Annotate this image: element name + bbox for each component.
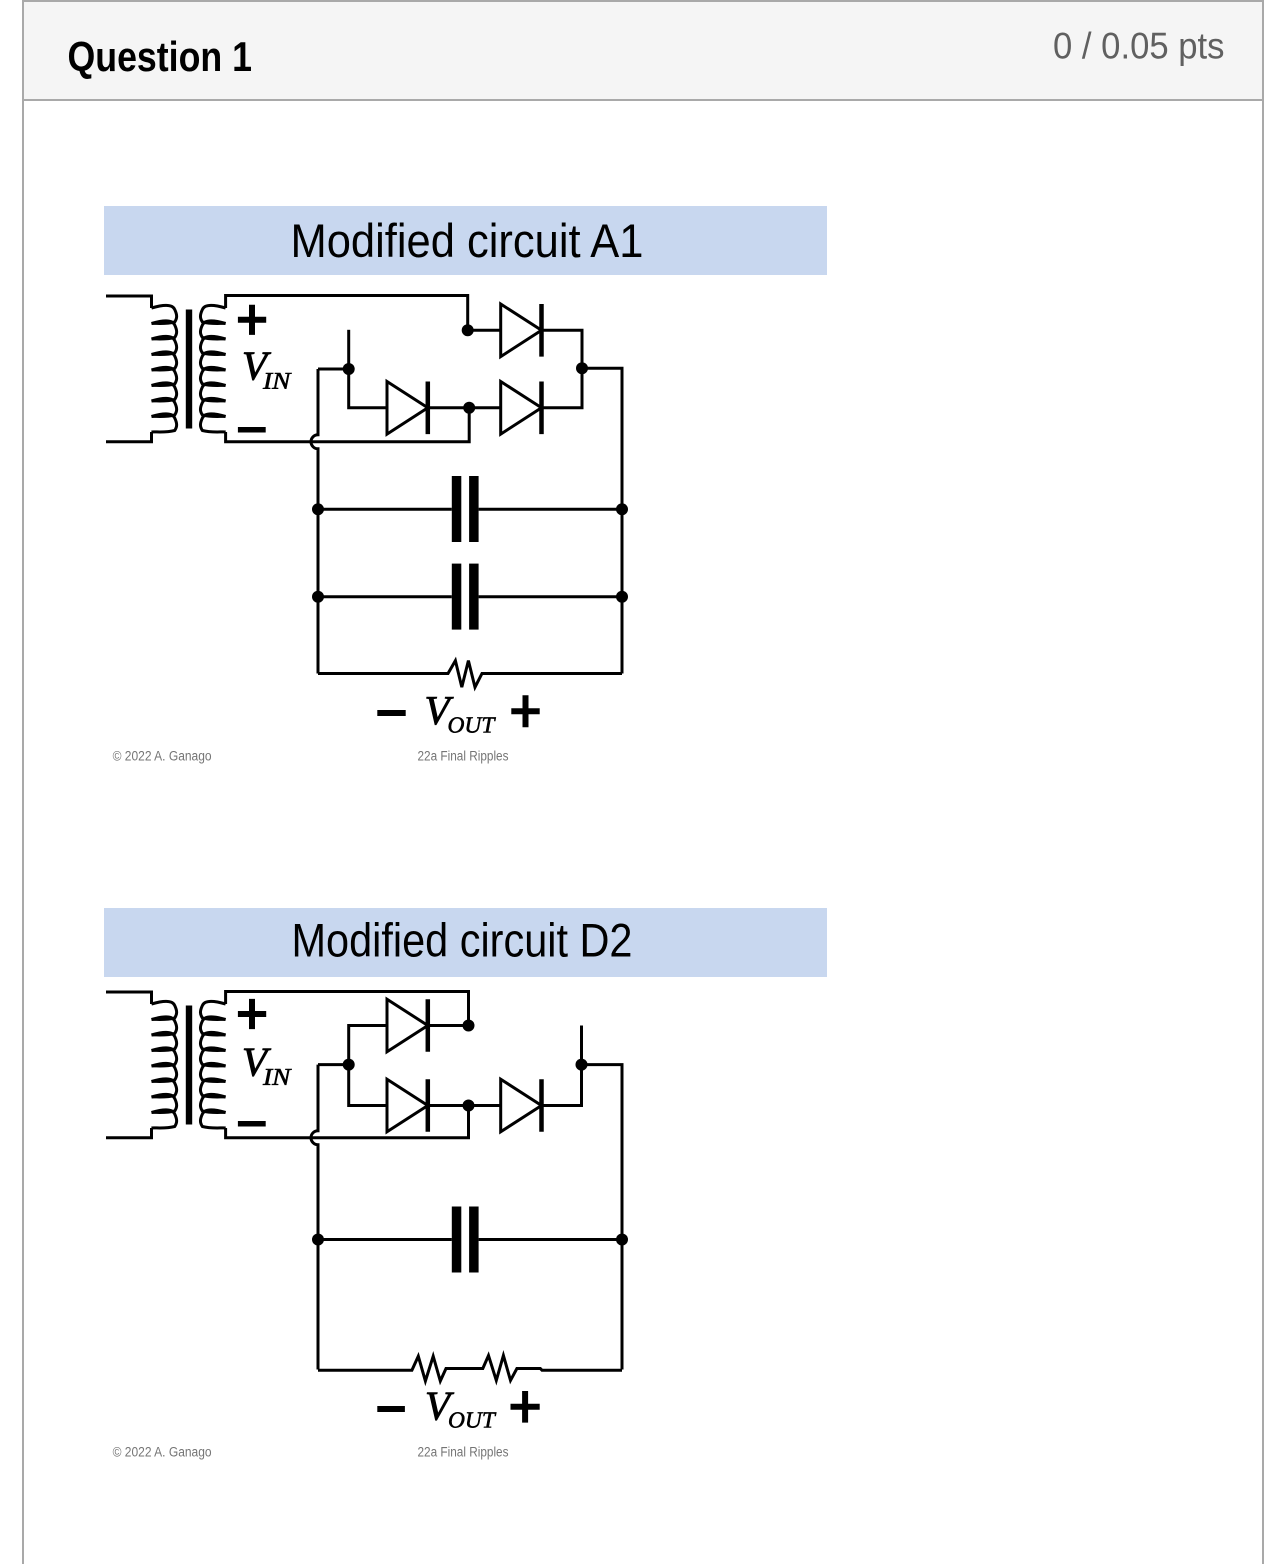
diode D3 cathode bar xyxy=(426,382,431,435)
wire secondary bottom to node C xyxy=(226,408,470,442)
wire D1 anode from node A xyxy=(349,1026,387,1065)
svg-text:© 2022 A. Ganago: © 2022 A. Ganago xyxy=(113,749,212,764)
wire D3 to D4 through node C xyxy=(428,406,501,409)
label VOUT A1 subscript xyxy=(449,717,496,732)
wire secondary top to D1 junction xyxy=(226,296,468,331)
node dot C1 left xyxy=(312,503,324,515)
transformer T2 core xyxy=(186,1006,192,1125)
node dot C1 right xyxy=(616,503,628,515)
wire D3a cathode up to node B (D2) xyxy=(542,1065,582,1106)
transformer T2 primary top lead xyxy=(106,992,152,1004)
label minus VOUT A1 xyxy=(377,710,405,716)
wire secondary top to node E xyxy=(226,992,469,1026)
label minus VOUT D2 xyxy=(377,1406,405,1412)
wire secondary bottom to node C (D2) xyxy=(226,1106,469,1138)
node dot cap right (D2) xyxy=(616,1234,628,1246)
label VOUT D2 xyxy=(427,1393,454,1420)
wire node A to D3 anode xyxy=(349,369,387,408)
wire node A to left rail xyxy=(318,368,349,371)
node dot top D1 junction xyxy=(462,324,474,336)
capacitor C1 left plate xyxy=(452,476,462,542)
node dot E xyxy=(463,1020,475,1032)
wire node A to left rail (D2) xyxy=(318,1063,349,1066)
transformer T1 primary bottom lead xyxy=(106,432,152,442)
svg-text:Modified circuit D2: Modified circuit D2 xyxy=(292,914,633,967)
node dot cap left (D2) xyxy=(312,1234,324,1246)
node dot A xyxy=(343,363,355,375)
diode D2a cathode bar xyxy=(426,1079,431,1132)
svg-text:0 / 0.05 pts: 0 / 0.05 pts xyxy=(1053,26,1225,67)
label VOUT D2 subscript xyxy=(449,1412,496,1427)
diode D3 triangle xyxy=(387,382,428,435)
slide A1 title banner xyxy=(104,206,827,275)
wire D1 cathode to node E xyxy=(428,1024,469,1027)
svg-text:© 2022 A. Ganago: © 2022 A. Ganago xyxy=(113,1445,212,1460)
capacitor C2 left plate xyxy=(452,564,462,630)
node stub above node A xyxy=(347,330,350,369)
svg-text:22a Final Ripples: 22a Final Ripples xyxy=(418,749,509,764)
wire capacitor C row (D2) xyxy=(318,1238,622,1241)
wire left rail with hop (D2) xyxy=(311,1065,318,1370)
label VOUT A1 xyxy=(427,697,454,724)
wire left rail with hop over transformer wire xyxy=(311,369,318,674)
wire capacitor C2 row xyxy=(318,595,622,598)
diode D3a triangle xyxy=(501,1079,542,1132)
node dot C2 left xyxy=(312,591,324,603)
diode D4 triangle xyxy=(501,382,542,435)
capacitor C2 right plate xyxy=(469,564,479,630)
diode D1 cathode bar (D2) xyxy=(426,999,431,1052)
diode D1 cathode bar xyxy=(539,304,544,357)
diode D2a triangle xyxy=(387,1079,428,1132)
label minus VIN A1 xyxy=(238,427,266,433)
transformer T1 secondary winding xyxy=(200,305,225,432)
wire node B to right rail (D2) xyxy=(582,1065,623,1370)
capacitor C right plate (D2) xyxy=(469,1207,479,1273)
label VIN A1 subscript xyxy=(263,373,292,389)
node dot B xyxy=(576,362,588,374)
transformer T2 primary winding xyxy=(152,1001,177,1128)
label plus VIN A1 xyxy=(238,305,266,335)
label plus VIN D2 xyxy=(238,999,266,1029)
transformer T2 primary bottom lead xyxy=(106,1128,152,1138)
node dot C xyxy=(463,402,475,414)
svg-text:22a Final Ripples: 22a Final Ripples xyxy=(418,1445,509,1460)
wire node A to D2a anode xyxy=(349,1065,387,1106)
diode D1 triangle (D2) xyxy=(387,999,428,1052)
node dot C (D2) xyxy=(463,1100,475,1112)
label plus VOUT D2 xyxy=(511,1391,540,1423)
svg-text:Modified circuit A1: Modified circuit A1 xyxy=(291,214,644,267)
node dot B (D2) xyxy=(576,1059,588,1071)
diode D4 cathode bar xyxy=(539,382,544,435)
capacitor C left plate (D2) xyxy=(452,1207,462,1273)
label VIN D2 xyxy=(244,1049,271,1076)
diode D1 triangle xyxy=(501,304,542,357)
wire capacitor C1 row xyxy=(318,508,622,511)
capacitor C1 right plate xyxy=(469,476,479,542)
wire D4 cathode up to node B xyxy=(542,368,583,408)
slide D2 title banner xyxy=(104,908,827,977)
wire bottom with resistor R1 xyxy=(318,661,622,688)
transformer T1 primary top lead xyxy=(106,296,152,308)
transformer T1 primary winding xyxy=(152,305,177,432)
node stub above node B xyxy=(580,1026,583,1065)
wire D2a to D3a through node C xyxy=(428,1104,501,1107)
label minus VIN D2 xyxy=(238,1121,266,1127)
diode D3a cathode bar xyxy=(539,1079,544,1132)
wire node B to right rail xyxy=(582,368,622,673)
transformer T2 secondary winding xyxy=(200,1001,225,1128)
wire D1 cathode to node B xyxy=(542,330,583,368)
label VIN A1 xyxy=(244,353,271,380)
wire bottom with resistors R1 R2 (D2) xyxy=(318,1356,622,1382)
label VIN D2 subscript xyxy=(263,1069,292,1085)
node dot A (D2) xyxy=(343,1059,355,1071)
node dot C2 right xyxy=(616,591,628,603)
question header bar xyxy=(24,2,1262,101)
wire D1 anode xyxy=(468,329,501,332)
transformer T1 core xyxy=(186,310,192,429)
svg-text:Question 1: Question 1 xyxy=(68,33,253,80)
label plus VOUT A1 xyxy=(511,695,539,727)
